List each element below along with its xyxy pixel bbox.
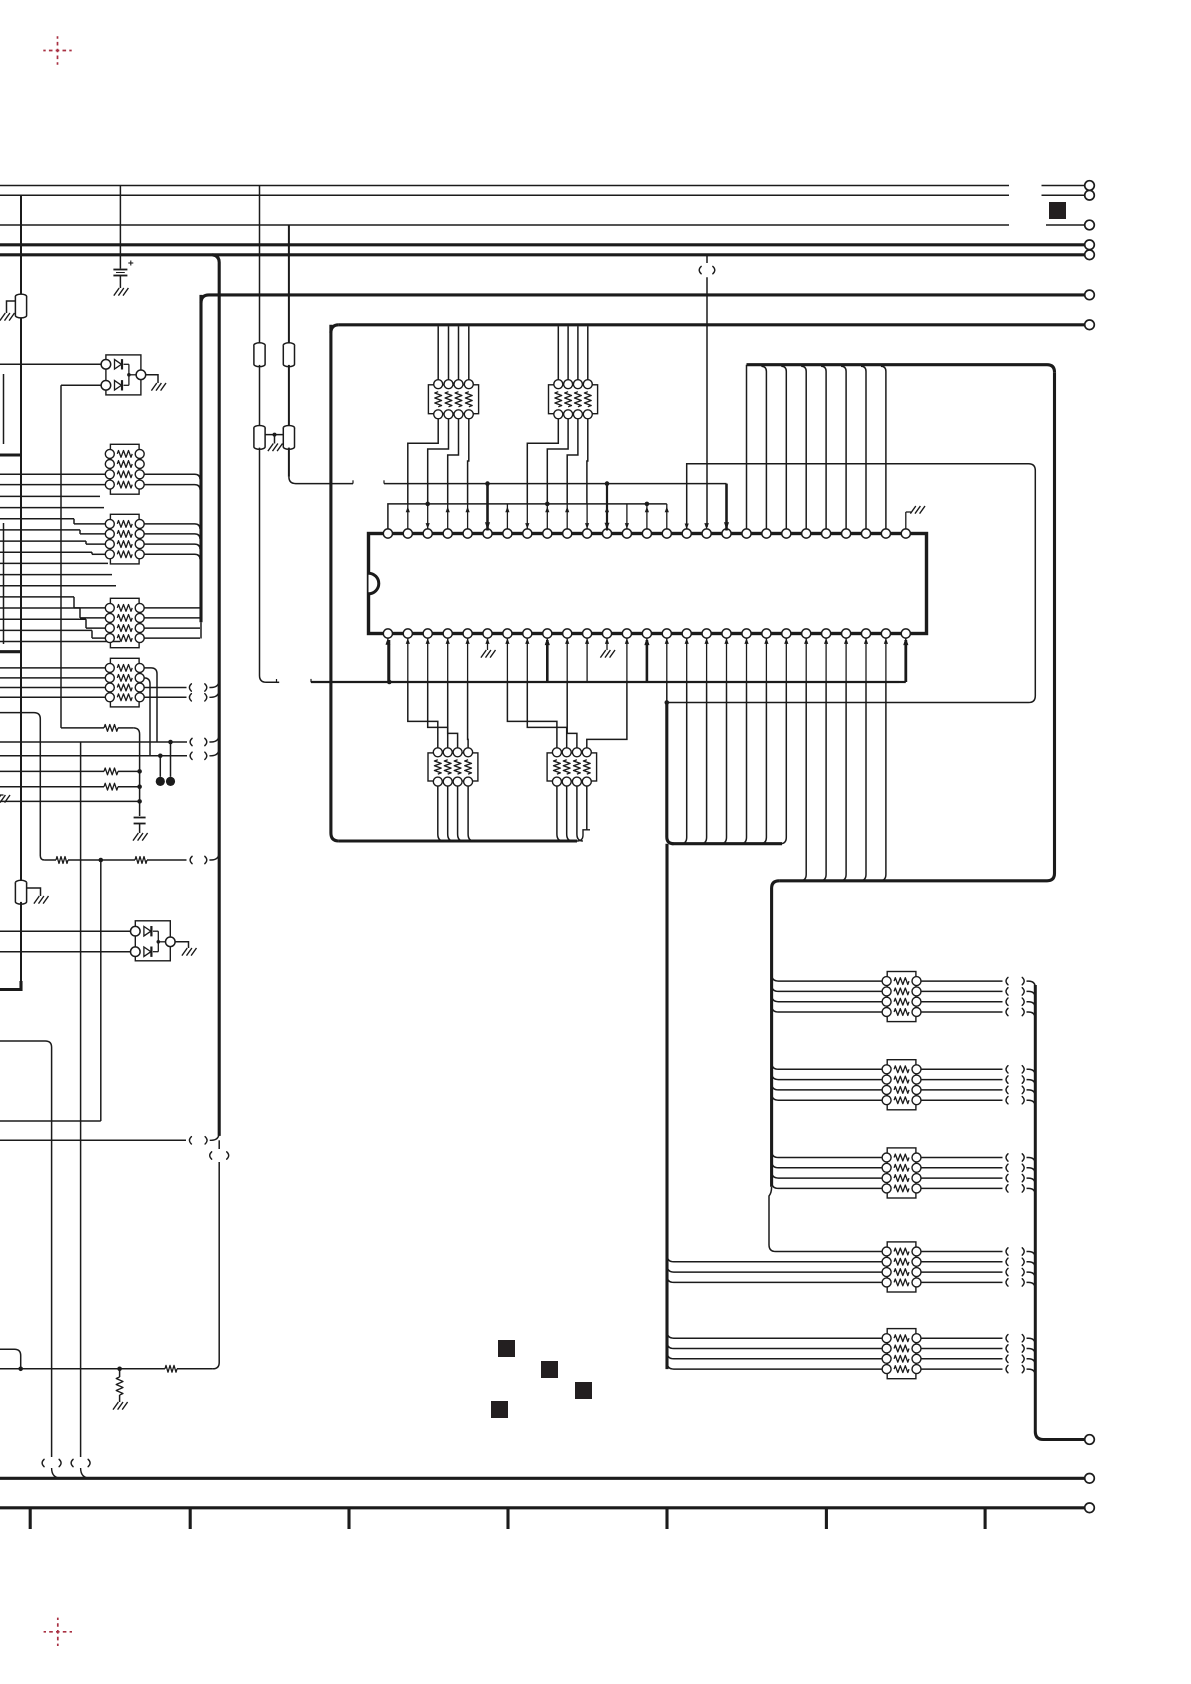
connector pin circle 7 (1085, 320, 1095, 330)
ground stub bottom pin 12 (606, 638, 608, 650)
bead M4 (cylinder) (283, 426, 294, 450)
wire pin 21 tail into shelf end (780, 682, 786, 844)
wire y=755.8 with connector (0, 755, 187, 757)
wire to D1 pin1 (0, 363, 101, 365)
bottom bus below IC (y=682) (311, 681, 899, 683)
IC U1 notch (369, 573, 379, 594)
bundle wires pins 15-20 to shelf (666, 682, 668, 703)
RN-C fanout wires to pins (408, 682, 438, 748)
wire y=771.4 with resistor R4 (0, 770, 104, 772)
block frame bottom (thick) (339, 839, 577, 842)
wire x=707 from bus 5 (706, 255, 708, 263)
connector pin circle 6 (1085, 290, 1095, 300)
ground stub at left edge (0, 794, 4, 796)
wire y=727.9 with resistor R3 (61, 727, 104, 729)
wire x=100.8 drop (100, 860, 102, 1121)
inline connector on x=80.6 (71, 1459, 73, 1466)
RN-D fanout wires to pins (507, 682, 557, 748)
thick arrow to pin 6 (486, 484, 489, 531)
RN-L2 right wires (144, 524, 200, 529)
shelf drop vertical x=667 (thick) (665, 844, 668, 1369)
diode D1b (115, 381, 122, 391)
diode D2b (144, 947, 151, 957)
diode D1a (115, 360, 122, 370)
arrow to pin 12 (606, 484, 608, 531)
bundle wires pins 22-26 to lower collector (800, 682, 806, 881)
wire y=786.7 with resistor R5 (0, 786, 104, 788)
left ladder horizontal wires (0, 495, 100, 497)
junction on y=860 (99, 858, 104, 863)
inline connector on x=219 (lower) (218, 1140, 220, 1149)
bus line 3 (0, 224, 1009, 226)
wire vertical x=330.9 (block frame left side) (329, 325, 332, 833)
diode pack D2 pins (131, 926, 141, 936)
thick collector bus above IC (right) (747, 363, 1048, 366)
connector pin circle 5 (1085, 250, 1095, 260)
pin stubs with arrows (bottom row) (387, 638, 389, 682)
capacitor C2 (134, 817, 146, 819)
wire vertical x=219 (thick bus drop) (212, 255, 219, 1136)
test point TP1 (black dot) (170, 742, 172, 777)
diode pack D1 pins (101, 360, 111, 370)
black square marker 2 (541, 1361, 558, 1378)
wire x=120.4 from bus 1 (119, 186, 121, 269)
distribution line 2 above IC (388, 504, 667, 529)
wire y=1041 to x=51.6 drop (0, 1041, 52, 1457)
bead M3 (cylinder) (254, 426, 265, 450)
resistor network RN-A (above IC, left) (428, 385, 478, 414)
inline connector gap on y=682 (277, 681, 280, 683)
riser wires from top pins 19-26 (746, 365, 748, 529)
loop wire right of IC (y=463.8) (667, 464, 1036, 703)
ground stub bottom pin 6 (487, 638, 489, 650)
wire y=1368.8 with resistor R6 (0, 1368, 120, 1370)
diode pack D1 internal wires (124, 363, 129, 365)
bus line 6 (thick) (209, 293, 1085, 296)
bead M1 (cylinder) (254, 343, 265, 367)
RN-L3 left wires (74, 607, 105, 609)
RN-L2 left wires (74, 523, 105, 525)
bus line 1 (0, 185, 1009, 187)
bead L1 (cylinder) on x=21 (15, 294, 26, 318)
diode pack D2 box (135, 921, 170, 961)
wire y=712.6 to x=40 drop (0, 712, 34, 714)
wire vertical x=61 (60, 385, 62, 728)
bridge between beads M3/M4 with ground (265, 434, 283, 436)
ground arm of D1 (145, 375, 158, 383)
wire vertical x=201 (thick bus drop) (199, 295, 202, 622)
distribution line 1 above IC (384, 483, 727, 485)
RN-C wires to block frame bottom (438, 786, 444, 841)
bus line 4 (thick) (0, 243, 1085, 246)
ground below R7 (113, 1402, 128, 1410)
RN-L3 right wires (144, 607, 200, 609)
connector pin circle 9 (1085, 1474, 1095, 1484)
resistor R7 to ground (116, 1377, 123, 1395)
ground arm of bead L2 (27, 888, 41, 896)
test point TP2 (black dot) (159, 756, 161, 777)
resistor network RN-L1 (110, 444, 139, 494)
resistor R2 on y=860 line (135, 857, 147, 864)
connector pin circle 1 (1085, 181, 1095, 191)
resistor network RN-L4 (110, 658, 139, 707)
riser arrow to bottom pin 1 (387, 680, 392, 685)
RN-L1 right wires (144, 474, 200, 479)
wire from D1 pin2 to x=61 (61, 384, 101, 386)
ground below C1 (114, 288, 129, 296)
black square marker 3 (575, 1382, 592, 1399)
wire to D2 pin1 (0, 930, 131, 932)
diode pack D1 box (106, 355, 141, 395)
resistor network RN-B (above IC, right) (549, 385, 598, 414)
ground stub at top pin 27 (905, 512, 907, 529)
pin stubs with arrows (top row) (407, 504, 409, 529)
IC U1 body (369, 534, 927, 634)
bottom bus B (thick) (0, 1506, 1085, 1509)
bottom bus A (thick) (0, 1477, 1085, 1480)
resistor network RN-L2 (110, 514, 139, 564)
thick riser to bottom pin 27 (904, 640, 907, 682)
inline connector on x=707 (699, 266, 701, 273)
wire x=21 lower segment (20, 902, 22, 988)
capacitor C1 (polarized) (113, 269, 127, 271)
wire vertical x=259.5 (259, 186, 261, 345)
wire y=1140.3 with connector to x=219 bus (0, 1139, 186, 1141)
RN-D wires to block frame bottom (557, 786, 563, 841)
resistor R1 on y=860 line (45, 859, 56, 861)
wire vertical x=288.9 (288, 225, 290, 344)
wire vertical x=21 (20, 195, 22, 882)
RN-A fanout wires to pins (408, 419, 438, 504)
black square marker (top right) (1049, 202, 1066, 219)
resistor network RN-D (below IC, right) (547, 753, 597, 781)
resistor network RN-R4 (887, 1242, 916, 1292)
wire y=1349.2 step (0, 1349, 21, 1369)
right drop bus to connector circle (1034, 985, 1037, 1432)
registration mark (top-left) (43, 36, 71, 64)
RN-L4 right wires (144, 668, 157, 742)
bus line 2 (0, 194, 1009, 196)
connector pin circle 2 (1085, 190, 1095, 200)
diode pack D2 internal wires (153, 930, 158, 932)
ground arm of D2 (175, 942, 189, 948)
black square marker 1 (498, 1340, 515, 1357)
thick riser to bottom pin 14 (646, 640, 649, 682)
bead M2 (cylinder) (283, 343, 294, 367)
wire y=1121 to left edge (0, 1120, 101, 1122)
branch stub y=651.7 (0, 650, 21, 653)
RN-L4 left wires (0, 667, 105, 669)
bus line 5 (thick) (0, 253, 1085, 256)
bus line 7 (thick) (339, 323, 1085, 326)
RN-A wires to bus 7 (437, 329, 439, 380)
connector pin circle 8 (1085, 1435, 1095, 1445)
ground arm of bead L1 (7, 301, 16, 313)
shelf collector (thick) (672, 842, 782, 845)
IC U1 bottom pins (383, 629, 392, 638)
thick arrow to pin 18 (725, 484, 728, 531)
RN-B fanout wires to pins (527, 419, 558, 504)
wire y=801.4 (0, 800, 140, 802)
ladder jogs to RN-L2 (73, 519, 75, 524)
branch stub y=455 (0, 453, 21, 456)
wire to D2 pin2 (0, 951, 131, 953)
resistor network RN-R1 (887, 972, 916, 1022)
registration mark (bottom-left) (44, 1618, 72, 1646)
resistor network RN-R3 (887, 1148, 916, 1198)
thick riser to bottom pin 9 (546, 640, 549, 682)
resistor network RN-L3 (110, 598, 139, 647)
ground below C2 (133, 833, 148, 841)
left drop of lower collector (thick) (772, 881, 780, 1187)
bottom scale tick marks (29, 1508, 32, 1529)
resistor network RN-R5 (887, 1329, 916, 1379)
lower collector (thick) (779, 879, 1047, 882)
black square marker 4 (491, 1401, 508, 1418)
connector pin circle 10 (1085, 1503, 1095, 1513)
wire y=742 with connector (0, 741, 187, 743)
diode D2a (144, 926, 151, 936)
RN-L1 left wires (0, 473, 105, 475)
resistor network RN-R2 (887, 1060, 916, 1110)
connector pin circle 4 (1085, 240, 1095, 250)
ladder jogs to RN-L3 (73, 597, 75, 608)
inline connector on x=51.6 (42, 1459, 44, 1466)
thin feeder to RN-R4 row 1 (769, 1187, 882, 1252)
IC U1 top pins (383, 529, 392, 538)
connector pin circle 3 (1085, 220, 1095, 230)
RN-B wires to bus 7 (557, 326, 559, 379)
bead L2 (cylinder) on x=21 (15, 880, 26, 904)
resistor network RN-C (below IC, left) (428, 753, 478, 781)
wire x=80.6 drop (80, 742, 82, 1457)
wire x=219 thin lower segment (218, 1162, 220, 1363)
clipped component stubs at left edge (3, 374, 5, 444)
arrow into IC top pin 17 (704, 523, 709, 529)
